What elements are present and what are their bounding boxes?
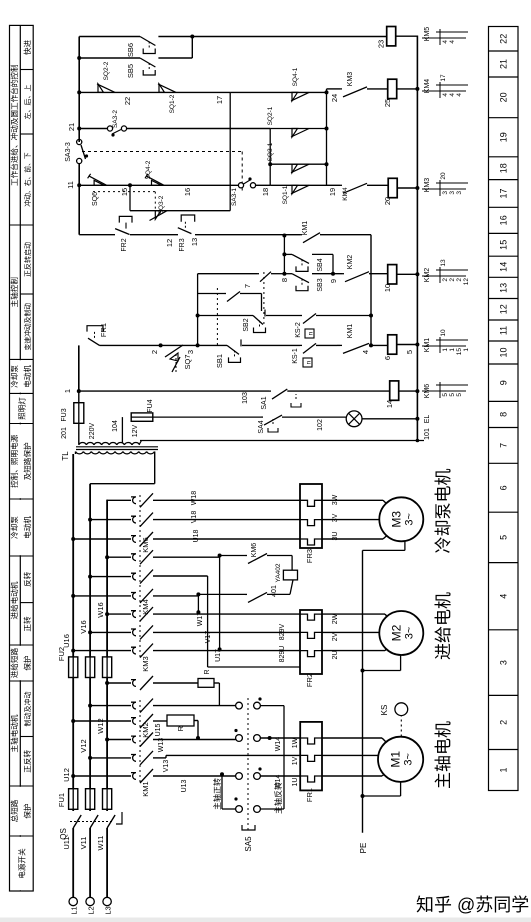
svg-text:W14: W14 <box>275 737 282 752</box>
svg-text:15: 15 <box>456 348 463 356</box>
svg-text:U15: U15 <box>155 723 162 736</box>
svg-text:KM5: KM5 <box>424 27 431 42</box>
terminal L2 <box>86 897 94 905</box>
svg-text:1: 1 <box>442 348 449 352</box>
svg-text:FU4: FU4 <box>147 399 154 412</box>
svg-text:5: 5 <box>405 350 414 354</box>
svg-text:18: 18 <box>499 163 509 173</box>
svg-text:4: 4 <box>456 93 463 97</box>
svg-text:KM2: KM2 <box>141 722 150 737</box>
node 4 wire <box>370 235 372 346</box>
svg-text:22: 22 <box>123 97 132 105</box>
svg-text:3: 3 <box>186 350 195 354</box>
link y230 node17 <box>229 92 231 210</box>
svg-text:11: 11 <box>499 326 509 335</box>
svg-text:2: 2 <box>456 278 463 282</box>
svg-text:W16: W16 <box>96 602 105 617</box>
svg-text:n: n <box>306 360 313 364</box>
svg-text:L1: L1 <box>70 906 79 914</box>
svg-text:19: 19 <box>328 188 337 196</box>
M3 wires down (KM6) <box>153 538 300 540</box>
feed enable branch x687 <box>320 234 371 236</box>
svg-text:2U: 2U <box>332 651 339 660</box>
wire L1-QS <box>72 828 74 897</box>
svg-text:4: 4 <box>499 594 509 599</box>
stop button SB1 <box>198 344 227 346</box>
svg-text:电动机: 电动机 <box>22 516 32 539</box>
wire R to V13 <box>194 720 198 722</box>
speed relay KS <box>395 703 408 716</box>
svg-text:12: 12 <box>499 304 509 314</box>
svg-text:KM1: KM1 <box>141 781 150 796</box>
electromagnet YA402 <box>283 570 297 580</box>
svg-text:主轴电动机: 主轴电动机 <box>9 714 19 752</box>
svg-text:16: 16 <box>183 188 192 196</box>
svg-text:SQ1-2: SQ1-2 <box>169 94 176 113</box>
svg-text:FU2: FU2 <box>57 647 66 661</box>
switch SA4 <box>264 415 282 425</box>
svg-text:3~: 3~ <box>403 753 415 766</box>
svg-text:3~: 3~ <box>403 627 415 640</box>
svg-text:3: 3 <box>449 191 456 195</box>
svg-text:829V: 829V <box>279 624 286 641</box>
linkage dashed SB1 <box>216 285 218 345</box>
transformer TL core <box>76 449 158 451</box>
svg-text:V12: V12 <box>79 739 88 752</box>
svg-text:2: 2 <box>449 278 456 282</box>
svg-text:冷却泵电机: 冷却泵电机 <box>434 469 453 554</box>
rotary switch SA3-2 <box>79 128 108 130</box>
svg-text:FR1: FR1 <box>99 323 108 337</box>
contact KM2 aux <box>345 272 369 282</box>
wire FU3 to node1 <box>78 391 80 403</box>
svg-text:10: 10 <box>499 347 509 357</box>
svg-text:2: 2 <box>499 720 509 725</box>
terminal L1 <box>69 897 77 905</box>
terminal L3 <box>103 897 111 905</box>
svg-text:15: 15 <box>120 188 129 196</box>
svg-text:22: 22 <box>499 34 509 44</box>
svg-text:U17: U17 <box>215 649 222 662</box>
svg-text:照明灯: 照明灯 <box>17 397 27 420</box>
svg-text:201: 201 <box>61 427 68 439</box>
KM6 main contacts group <box>71 537 75 541</box>
KM2 main contact pole 1 <box>71 719 75 723</box>
svg-text:7: 7 <box>243 284 252 288</box>
svg-text:1U: 1U <box>292 778 299 787</box>
svg-text:KS-2: KS-2 <box>295 322 302 338</box>
contact KM1 self-hold <box>343 343 369 353</box>
svg-text:KM4: KM4 <box>342 187 349 201</box>
svg-text:17: 17 <box>215 96 224 104</box>
svg-text:SB2: SB2 <box>243 318 250 331</box>
motor M1 <box>378 737 423 782</box>
top rail left section <box>78 345 80 391</box>
node 2 <box>159 343 163 347</box>
svg-text:FU3: FU3 <box>61 408 68 421</box>
wire V-phase mid (166.6) <box>153 757 166 759</box>
svg-text:YA402: YA402 <box>275 563 282 582</box>
svg-text:1W: 1W <box>292 737 299 748</box>
start button SB3 <box>284 273 292 275</box>
svg-text:KM1: KM1 <box>347 324 354 339</box>
svg-text:M3: M3 <box>389 511 403 528</box>
KM1 main contact pole 1 <box>71 774 75 778</box>
svg-text:4: 4 <box>442 93 449 97</box>
svg-text:24: 24 <box>330 94 339 102</box>
wires QS-FU1 <box>72 809 74 811</box>
wire 101 return <box>140 440 424 442</box>
svg-text:FU1: FU1 <box>57 793 66 807</box>
SA5 contact dots <box>234 729 237 732</box>
svg-text:保护: 保护 <box>22 655 32 671</box>
fuse FU1 group <box>69 789 78 810</box>
svg-text:SQ2-1: SQ2-1 <box>267 106 274 125</box>
KS dashed shaft <box>400 716 402 737</box>
branch 20: SQ2-2 SQ1-2 <box>77 90 81 94</box>
svg-text:V18: V18 <box>191 511 198 524</box>
bottom gray band <box>0 918 531 922</box>
node 3 <box>196 343 200 347</box>
thermal contact FR3 <box>178 228 192 234</box>
svg-text:KM3: KM3 <box>424 178 431 193</box>
node 8 <box>282 272 286 276</box>
rotary switch SA3-1 <box>238 183 243 188</box>
limit switch SQ6 <box>94 180 104 185</box>
node 1 <box>77 389 81 393</box>
wire 1U SA5-FR1 <box>261 775 301 777</box>
branch 21 SB5 <box>77 56 81 60</box>
svg-text:SA4: SA4 <box>258 420 265 433</box>
svg-text:13: 13 <box>440 259 447 267</box>
svg-text:FR1: FR1 <box>305 788 314 802</box>
contactor coil KM2 <box>388 265 397 284</box>
node 15 <box>128 183 132 187</box>
lamp EL <box>346 411 362 427</box>
svg-text:FR2: FR2 <box>121 238 128 251</box>
svg-text:KM4: KM4 <box>141 599 150 614</box>
branch 22 SB6 <box>79 36 140 38</box>
svg-text:冲动、右、前、下: 冲动、右、前、下 <box>23 152 32 207</box>
svg-text:8: 8 <box>499 412 509 417</box>
svg-text:1: 1 <box>449 348 456 352</box>
fuse FU4 <box>131 413 153 421</box>
svg-text:制动及冲动: 制动及冲动 <box>23 692 32 727</box>
motor M2 <box>379 611 423 655</box>
button SB6 <box>140 37 155 46</box>
svg-text:控制、照明电源: 控制、照明电源 <box>9 434 19 488</box>
wire to KM5 coil <box>192 36 386 38</box>
svg-text:进给电机: 进给电机 <box>434 592 453 660</box>
svg-text:正反转: 正反转 <box>22 750 32 773</box>
svg-text:U13: U13 <box>181 779 188 792</box>
limit switch SQ4-2 <box>152 180 162 185</box>
svg-text:SQ2-2: SQ2-2 <box>103 61 110 80</box>
svg-text:KM2: KM2 <box>424 268 431 283</box>
linkage dashed SB2 <box>263 269 265 324</box>
svg-text:总短路: 总短路 <box>9 799 19 822</box>
button SB5 <box>140 58 155 67</box>
fuse FU3 <box>74 403 84 424</box>
brake contact SB1-2 branch <box>198 293 224 295</box>
svg-text:4: 4 <box>449 40 456 44</box>
svg-text:FR2: FR2 <box>305 673 314 687</box>
svg-text:主轴电机: 主轴电机 <box>434 721 453 789</box>
KM1 main contact pole 2 <box>88 756 92 760</box>
thermal relay FR1 heaters <box>300 722 322 791</box>
wires FR2 to M2 <box>322 650 385 652</box>
switch SA1 <box>272 389 287 399</box>
svg-text:1: 1 <box>499 767 509 772</box>
svg-text:10: 10 <box>440 329 447 337</box>
svg-text:SB6: SB6 <box>126 43 135 57</box>
svg-text:KS-1: KS-1 <box>292 348 299 364</box>
limit switch SQ3-1 <box>270 163 326 165</box>
svg-text:KM2: KM2 <box>347 255 354 270</box>
svg-text:及短路保护: 及短路保护 <box>22 442 32 480</box>
svg-text:SB3: SB3 <box>317 278 324 291</box>
column number strip <box>489 27 519 791</box>
KM4 crossover wires <box>153 595 198 597</box>
KM6 aux contact wire <box>220 555 245 557</box>
svg-text:R: R <box>204 669 211 674</box>
svg-text:电源开关: 电源开关 <box>17 848 27 879</box>
svg-text:3: 3 <box>499 660 509 665</box>
branch 17: SQ6 SQ4-2 SA3-1 <box>77 183 81 187</box>
svg-text:电动机: 电动机 <box>22 365 32 388</box>
svg-text:20: 20 <box>383 197 392 205</box>
svg-text:SA3-3: SA3-3 <box>65 142 72 162</box>
svg-text:9: 9 <box>329 279 338 283</box>
contactor coil KM1 <box>388 335 397 354</box>
svg-text:SA1: SA1 <box>261 396 268 409</box>
contactor coil KM6 <box>390 381 399 400</box>
wire 103 down <box>153 416 261 418</box>
svg-text:2: 2 <box>442 278 449 282</box>
svg-text:1: 1 <box>463 348 470 352</box>
M1 ground stub <box>361 794 365 798</box>
svg-text:20: 20 <box>499 92 509 102</box>
svg-text:W11: W11 <box>96 836 105 851</box>
start button SB4 <box>284 253 292 255</box>
phase bus V <box>89 678 91 789</box>
svg-text:V11: V11 <box>79 837 88 850</box>
svg-text:TL: TL <box>61 451 70 461</box>
svg-text:3: 3 <box>442 191 449 195</box>
rail left end <box>416 439 420 443</box>
svg-text:U18: U18 <box>193 529 200 542</box>
svg-text:快进: 快进 <box>22 40 32 56</box>
svg-text:FR3: FR3 <box>305 549 314 563</box>
SQ6 linkage dashed <box>93 191 155 193</box>
svg-text:PE: PE <box>359 843 368 854</box>
svg-text:21: 21 <box>67 123 76 131</box>
svg-text:KM1: KM1 <box>302 221 309 236</box>
svg-text:14: 14 <box>499 262 509 272</box>
wires FR3 to M3 <box>322 538 383 540</box>
M2 ground stub <box>361 669 365 673</box>
svg-text:W17: W17 <box>197 612 204 627</box>
svg-text:L3: L3 <box>104 906 113 914</box>
thermal relay FR2 heaters <box>300 610 322 674</box>
KM4 main contacts group <box>71 594 75 598</box>
M2 feed wires down <box>153 650 300 652</box>
svg-text:18: 18 <box>261 188 270 196</box>
KM2 main contact pole 2 <box>88 704 92 708</box>
svg-text:变速冲动及制动: 变速冲动及制动 <box>23 303 32 351</box>
svg-text:V16: V16 <box>79 620 88 633</box>
svg-text:829U: 829U <box>279 646 286 663</box>
svg-text:KM3: KM3 <box>141 656 150 671</box>
contact KM1 NO feed <box>303 233 320 243</box>
feed bus W16 <box>106 500 108 657</box>
svg-text:3~: 3~ <box>403 513 415 526</box>
svg-text:6: 6 <box>499 485 509 490</box>
limit switch SQ3-2 <box>155 211 161 220</box>
svg-text:工作台进给、冲动及圆工作台的控制: 工作台进给、冲动及圆工作台的控制 <box>9 64 19 186</box>
switch SQ7 jog <box>161 344 198 346</box>
svg-text:4: 4 <box>442 40 449 44</box>
svg-text:SQ3-2: SQ3-2 <box>158 195 165 214</box>
strip cell dividers <box>10 70 34 837</box>
svg-text:SQ6: SQ6 <box>92 192 99 206</box>
svg-text:正转: 正转 <box>22 616 32 632</box>
bottom rail 0 <box>416 36 418 441</box>
svg-text:5: 5 <box>499 535 509 540</box>
thermal relay FR3 heaters <box>300 484 322 548</box>
svg-text:n: n <box>308 331 315 335</box>
svg-text:EL: EL <box>424 415 431 424</box>
svg-text:2W: 2W <box>332 613 339 624</box>
cross-ref comb KM3 <box>422 188 466 190</box>
svg-text:KM6: KM6 <box>141 537 150 552</box>
switch SA5 terminals <box>236 806 243 813</box>
wire lamp to rail <box>362 418 417 420</box>
svg-text:保护: 保护 <box>22 803 32 819</box>
wire L2-QS <box>89 828 91 897</box>
svg-text:2V: 2V <box>332 632 339 641</box>
branch node1-SA1-KM6 coil <box>79 390 269 392</box>
feed pyramid links <box>269 129 271 186</box>
svg-text:220V: 220V <box>89 423 96 440</box>
svg-text:FR3: FR3 <box>179 238 186 251</box>
svg-text:2: 2 <box>150 350 159 354</box>
svg-text:W13: W13 <box>158 738 165 753</box>
svg-text:103: 103 <box>242 392 249 404</box>
svg-text:SA5: SA5 <box>244 836 253 852</box>
svg-text:401: 401 <box>271 585 278 597</box>
svg-text:SB1: SB1 <box>215 354 224 368</box>
svg-text:12: 12 <box>463 278 470 286</box>
wire 401 <box>198 593 245 595</box>
KM3 aux and KM4 coil <box>327 88 341 90</box>
wires FR1 to M1 <box>322 775 382 777</box>
motor M3 <box>379 497 423 541</box>
phase bus W <box>106 678 108 789</box>
KM4 aux and KM3 coil <box>327 184 341 186</box>
speed relay contact KS-2 <box>303 314 316 324</box>
speed relay contact KS-1 <box>303 343 316 353</box>
wire 1W SA5-FR1 <box>261 737 301 739</box>
dashed link feed contacts <box>139 494 141 657</box>
resistor R (braking) <box>167 715 194 726</box>
wire 102 <box>282 416 346 418</box>
svg-text:102: 102 <box>317 419 324 431</box>
branch SQ3-2 from node15 <box>129 185 131 210</box>
dashed link KM1 KM2 <box>139 700 141 782</box>
thermal contact FR1 <box>88 338 100 345</box>
svg-text:R: R <box>176 725 185 731</box>
SA5 dashed linkage <box>247 696 249 830</box>
SA3 linkage dashed <box>82 151 242 153</box>
svg-text:10: 10 <box>383 284 392 292</box>
contactor coil KM4 <box>388 79 397 98</box>
svg-text:KS: KS <box>380 705 389 716</box>
svg-text:12: 12 <box>165 239 174 247</box>
svg-text:3V: 3V <box>332 513 339 522</box>
join SB5 SB6 <box>191 37 193 59</box>
svg-text:17: 17 <box>440 74 447 82</box>
phase bus U <box>72 678 74 789</box>
transformer TL secondary coil <box>79 443 140 445</box>
wire 12V tap <box>121 417 123 443</box>
top rail node 11 section <box>78 161 80 235</box>
svg-text:进给短路: 进给短路 <box>9 647 19 678</box>
svg-text:4: 4 <box>361 350 370 354</box>
svg-text:5: 5 <box>442 393 449 397</box>
svg-text:正反转启动: 正反转启动 <box>23 242 32 277</box>
svg-text:SB5: SB5 <box>126 64 135 78</box>
wire 201 to FU3 <box>78 423 80 445</box>
cross-ref comb KM5 <box>422 37 466 39</box>
cross-ref comb KM6 <box>422 390 466 392</box>
wire L3-QS <box>106 828 108 897</box>
switch QS <box>73 815 81 828</box>
svg-text:20: 20 <box>440 172 447 180</box>
svg-text:101: 101 <box>424 428 431 440</box>
primary bottom connection <box>154 452 156 484</box>
svg-text:KM3: KM3 <box>347 72 354 87</box>
svg-text:7: 7 <box>499 443 509 448</box>
svg-text:5: 5 <box>456 393 463 397</box>
svg-text:进给电动机: 进给电动机 <box>9 581 19 619</box>
svg-text:104: 104 <box>112 420 119 432</box>
branch R resistor feed <box>105 681 109 685</box>
svg-text:23: 23 <box>377 40 386 48</box>
svg-text:SQ7: SQ7 <box>183 354 192 369</box>
fuse FU2 group <box>69 657 78 678</box>
svg-text:KM6: KM6 <box>251 543 258 558</box>
SA5 wiring lower aux <box>261 808 285 810</box>
svg-text:SQ1-1: SQ1-1 <box>282 185 289 204</box>
brake contact SB2-2 branch <box>198 273 257 275</box>
svg-text:19: 19 <box>499 132 509 142</box>
SA5 wiring upper aux <box>222 808 236 810</box>
svg-text:W18: W18 <box>191 491 198 506</box>
limit switch SQ1-2 <box>159 84 165 93</box>
svg-text:5: 5 <box>449 393 456 397</box>
svg-text:17: 17 <box>499 188 509 198</box>
svg-text:冷却泵: 冷却泵 <box>9 365 19 388</box>
svg-text:左、后、上: 左、后、上 <box>23 85 32 120</box>
transformer TL primary coil <box>76 452 155 454</box>
svg-text:6: 6 <box>383 356 392 360</box>
cross-ref comb KM4 <box>422 90 466 92</box>
node3 wire <box>197 274 199 346</box>
feed bus V16 <box>89 484 91 657</box>
svg-text:冷却泵: 冷却泵 <box>9 516 19 539</box>
svg-text:3: 3 <box>456 191 463 195</box>
